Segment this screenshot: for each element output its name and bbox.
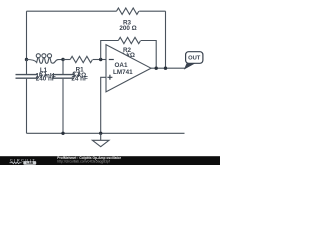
ground <box>92 133 109 146</box>
resistor R3 <box>117 8 139 32</box>
footer bar <box>0 156 220 165</box>
wire opamp plus input to ground rail <box>101 77 106 133</box>
svg-text:OA1: OA1 <box>115 62 128 69</box>
node C2 ground junction <box>61 132 64 135</box>
wire bottom ground rail <box>27 132 185 134</box>
wire R2 right down to output <box>141 41 156 69</box>
inductor L1 <box>27 54 64 80</box>
capacitor C1 <box>16 71 56 83</box>
svg-text:LAB: LAB <box>27 161 34 165</box>
capacitor C2 <box>52 71 88 83</box>
footer url text <box>57 160 110 164</box>
svg-text:OUT: OUT <box>188 56 201 62</box>
node R2 branch junction <box>99 58 102 61</box>
node ground junction <box>99 132 102 135</box>
op-amp OA1 <box>106 45 151 92</box>
resistor R2 <box>118 37 140 59</box>
wire top rail right segment <box>139 10 165 12</box>
wire left rail upper <box>26 11 28 59</box>
svg-text:http://circuitlab.com/c4t3e5aq: http://circuitlab.com/c4t3e5aqg83pf <box>57 160 110 164</box>
OUT flag <box>185 52 203 69</box>
wire C2 lower lead <box>62 79 64 134</box>
CircuitLab logo <box>10 158 37 165</box>
node R3 output junction <box>164 67 167 70</box>
svg-text:10 mH: 10 mH <box>36 72 55 79</box>
wire R1 to opamp minus input <box>93 59 106 61</box>
svg-text:200 Ω: 200 Ω <box>119 25 136 32</box>
wire R3 right vertical <box>165 11 167 68</box>
wire top rail left segment <box>27 10 117 12</box>
node tank top junction <box>25 58 28 61</box>
footer title text <box>57 156 121 160</box>
wire left rail lower <box>26 79 28 134</box>
svg-text:LM741: LM741 <box>113 69 133 76</box>
wire R2 branch up <box>101 41 119 60</box>
wire output <box>151 67 186 69</box>
svg-text:24 nF: 24 nF <box>71 76 88 83</box>
node C2 tap junction <box>61 58 64 61</box>
wire left rail to C1 <box>26 60 28 75</box>
wire C2 upper lead <box>62 60 64 75</box>
wire tank rail to R1 <box>63 59 70 61</box>
node R2 output junction <box>155 67 158 70</box>
resistor R1 <box>70 56 92 79</box>
